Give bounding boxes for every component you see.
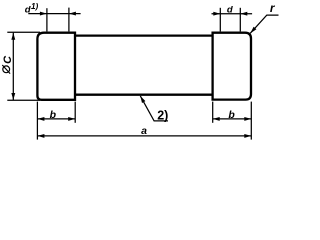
svg-text:d: d bbox=[227, 4, 233, 15]
label diameter C : diameter symbol circle bbox=[3, 66, 10, 73]
dimension b bottom-left: extension lines bbox=[37, 102, 75, 140]
dimension d1) top-left: extension lines bbox=[47, 8, 69, 32]
dimension d1) arrowheads bbox=[40, 12, 47, 16]
dimension a (overall length): dimension line bbox=[37, 135, 251, 137]
dimension C arrowheads bbox=[11, 33, 15, 40]
svg-text:b: b bbox=[50, 109, 57, 121]
dimension b bottom-right: extension lines bbox=[213, 102, 252, 140]
fuse body (tube between caps) bbox=[74, 36, 214, 95]
dimension b bottom-left: dimension line bbox=[37, 118, 75, 120]
leader r arrowhead bbox=[250, 27, 256, 34]
dimension b bottom-left arrowheads bbox=[37, 117, 44, 121]
leader 2) (note on body) bbox=[140, 96, 168, 121]
right end cap bbox=[213, 33, 251, 100]
dimension C (cap diameter) extension lines bbox=[7, 32, 40, 100]
dimension d arrowheads bbox=[213, 12, 220, 16]
svg-text:b: b bbox=[228, 109, 235, 121]
leader 2) arrowhead bbox=[140, 96, 145, 103]
dimension d top-right: extension lines bbox=[220, 8, 240, 32]
dimension C vertical dimension line bbox=[12, 33, 14, 100]
leader r (corner radius) bbox=[250, 15, 278, 33]
dimension d top-right: dimension line bbox=[212, 13, 253, 15]
svg-text:a: a bbox=[141, 125, 147, 137]
dimension b bottom-right: dimension line bbox=[213, 118, 252, 120]
svg-text:1): 1) bbox=[31, 2, 39, 11]
svg-text:C: C bbox=[2, 55, 14, 64]
label diameter C : diameter symbol slash bbox=[2, 65, 10, 74]
svg-text:2): 2) bbox=[157, 108, 168, 122]
dimension b bottom-right arrowheads bbox=[213, 117, 220, 121]
dimension d1) top-left: dimension line bbox=[28, 13, 80, 15]
left end cap bbox=[37, 33, 75, 100]
svg-text:d: d bbox=[25, 4, 31, 15]
dimension a arrowheads bbox=[37, 134, 44, 138]
